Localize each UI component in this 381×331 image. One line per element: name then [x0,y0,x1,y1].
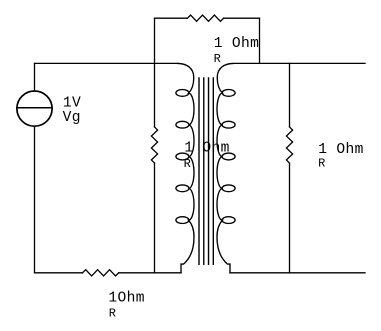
wire top segment right of R1 [224,17,260,19]
svg-text:Vg: Vg [63,110,81,126]
svg-text:R: R [318,156,325,170]
svg-text:1 Ohm: 1 Ohm [214,36,260,52]
wire mid vertical lower [154,163,156,273]
transformer T1 primary winding [176,63,194,272]
wire bottom-right rail [230,272,365,274]
resistor R5 (1Ohm bottom) [83,270,119,276]
resistor R4 (1 Ohm right, vertical) [286,127,292,163]
svg-text:R: R [109,306,116,320]
wire left vertical source top lead [34,63,36,91]
wire bottom rail from R5 to transformer primary bottom [119,272,181,274]
svg-text:1V: 1V [63,96,81,112]
wire top-left horizontal (node A to transformer primary top) [35,62,179,64]
wire right vertical upper [289,63,291,127]
wire mid vertical upper (x=154.5 from top wire down through node, crossing) [154,18,156,127]
svg-text:1Ohm: 1Ohm [108,291,144,307]
voltage source Vg [17,91,52,126]
svg-text:R: R [184,157,191,171]
wire source bottom lead [34,126,36,273]
transformer T1 secondary winding [217,63,235,272]
transformer T1 core [199,78,213,264]
svg-text:R: R [214,52,221,66]
wire right drop from top wire to secondary top [259,18,261,63]
wire top-right horizontal (secondary top to right port) [234,62,366,64]
wire top segment left of R1 [155,17,188,19]
wire bottom-left rail segment [35,272,83,274]
resistor R1 (1 Ohm top) [187,15,223,21]
wire right vertical lower [289,163,291,273]
resistor R2 (1 Ohm middle, vertical) [151,127,157,163]
svg-text:1 Ohm: 1 Ohm [184,140,230,156]
